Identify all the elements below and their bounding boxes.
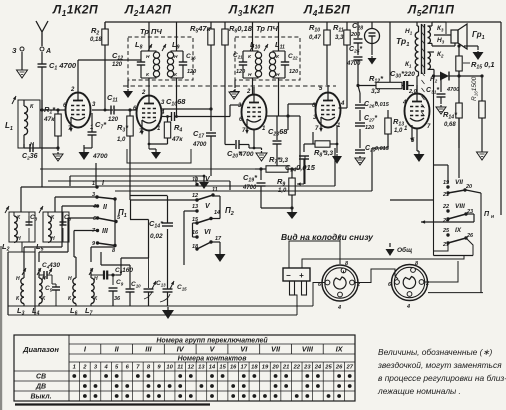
svg-text:4: 4 bbox=[340, 101, 345, 107]
svg-text:18: 18 bbox=[251, 365, 258, 371]
svg-text:19: 19 bbox=[443, 180, 450, 186]
ground IF2 bbox=[230, 80, 240, 98]
terminal Z ground post bbox=[12, 47, 24, 68]
svg-text:120: 120 bbox=[236, 69, 245, 75]
svg-text:21: 21 bbox=[282, 365, 289, 371]
wire screen feed bbox=[388, 22, 391, 87]
Tr1 secondary winding upper bbox=[428, 24, 445, 44]
wire osc routing 2 bbox=[39, 218, 98, 262]
resistor R1 47k bbox=[43, 105, 61, 148]
svg-text:Н: Н bbox=[248, 72, 252, 78]
ground left of R7 bbox=[256, 151, 267, 161]
capacitor C12 120 bbox=[112, 51, 123, 68]
footnote text bbox=[377, 347, 506, 396]
resistor R5 47k bbox=[190, 22, 214, 109]
arrow into R9 bbox=[297, 169, 304, 186]
svg-text:1,0: 1,0 bbox=[117, 137, 126, 143]
svg-text:Номера групп переключателей: Номера групп переключателей bbox=[156, 337, 268, 345]
label tube V5 type bbox=[407, 3, 454, 19]
svg-text:Н: Н bbox=[16, 276, 20, 282]
tuned circuit L9 C16 bbox=[162, 22, 187, 117]
page edge shadow bbox=[0, 246, 2, 410]
resistor R12 3.3 bbox=[358, 74, 402, 95]
wire antenna column down bbox=[41, 110, 43, 187]
capacitor C20 4700 bbox=[225, 117, 254, 160]
svg-text:А: А bbox=[45, 48, 51, 55]
antenna bbox=[36, 21, 48, 46]
wire HT supply bus bbox=[105, 22, 501, 215]
svg-text:10: 10 bbox=[166, 365, 173, 371]
wire mid horizontal 5 bbox=[115, 190, 372, 192]
coil L3 bbox=[16, 268, 26, 317]
svg-text:25: 25 bbox=[442, 228, 450, 234]
svg-text:4: 4 bbox=[406, 304, 410, 310]
svg-text:17: 17 bbox=[241, 365, 248, 371]
svg-text:Л21А2П: Л21А2П bbox=[124, 3, 171, 19]
svg-text:23: 23 bbox=[303, 365, 311, 371]
svg-text:3,3: 3,3 bbox=[371, 88, 380, 95]
tuned circuit L8 C12 bbox=[135, 22, 160, 96]
tube V5 2P1P bbox=[402, 85, 431, 144]
ground IF1 bbox=[123, 80, 133, 98]
svg-text:14: 14 bbox=[214, 210, 220, 216]
capacitor C30 220 bbox=[390, 69, 417, 95]
ground under C31 bbox=[436, 105, 446, 114]
svg-text:22: 22 bbox=[442, 204, 449, 210]
Tr1 secondary winding lower bbox=[428, 51, 445, 83]
svg-text:VI: VI bbox=[240, 345, 248, 354]
wire R13 bottom bbox=[362, 148, 388, 191]
svg-text:Л31К2П: Л31К2П bbox=[228, 3, 274, 19]
switch section III bbox=[92, 228, 117, 254]
table switch contacts bbox=[14, 335, 355, 405]
svg-text:Н: Н bbox=[146, 54, 150, 60]
resistor R16 1500 bbox=[471, 76, 485, 148]
resistor R2 0.18 bbox=[90, 22, 108, 110]
coil L7 bbox=[85, 268, 98, 317]
svg-text:−: − bbox=[286, 271, 291, 280]
svg-text:Тр ПЧ: Тр ПЧ bbox=[140, 27, 162, 36]
svg-text:27: 27 bbox=[345, 365, 353, 371]
svg-text:R161500: R161500 bbox=[471, 76, 479, 101]
capacitor C9 36 bbox=[109, 273, 124, 306]
svg-text:4: 4 bbox=[92, 204, 96, 210]
wire grid junction bbox=[56, 108, 65, 111]
svg-text:+: + bbox=[299, 271, 304, 280]
wire osc routing 1 bbox=[24, 206, 98, 272]
svg-text:19: 19 bbox=[262, 365, 269, 371]
resistor R15 0.1 bbox=[456, 44, 495, 76]
switch section IV bbox=[192, 176, 218, 202]
svg-text:15: 15 bbox=[219, 365, 226, 371]
wire osc routing 5 bbox=[101, 252, 130, 288]
ground under V2 bbox=[148, 131, 161, 160]
speaker Gr1 bbox=[451, 24, 485, 49]
label P2 bbox=[225, 206, 234, 217]
capacitor C25 4700 bbox=[346, 46, 363, 93]
capacitor C26 0.015 bbox=[355, 101, 390, 110]
label tube V1 type bbox=[52, 3, 98, 19]
capacitor C14 0.02 bbox=[149, 196, 173, 288]
switch section VIII bbox=[442, 203, 473, 224]
svg-text:Н: Н bbox=[174, 54, 178, 60]
ground under VI bbox=[211, 242, 226, 262]
svg-text:С4430: С4430 bbox=[42, 262, 60, 269]
resistor R8 3.3 bbox=[313, 125, 338, 159]
capacitor C5 bbox=[45, 275, 60, 306]
svg-text:47к: 47к bbox=[171, 136, 183, 143]
svg-text:1: 1 bbox=[92, 181, 95, 187]
wire common return bbox=[302, 256, 464, 269]
coil L6 bbox=[68, 272, 78, 317]
svg-text:25: 25 bbox=[324, 365, 332, 371]
ground under R1 C2 bbox=[53, 146, 63, 161]
wire mid to switch IV bbox=[196, 156, 305, 184]
svg-text:VIII: VIII bbox=[455, 203, 465, 210]
switch section IX bbox=[442, 227, 474, 248]
terminal A bbox=[40, 47, 51, 55]
wire C14 connections bbox=[130, 196, 196, 266]
capacitor C1 4700 bbox=[38, 52, 77, 100]
svg-text:Диапазон: Диапазон bbox=[22, 345, 59, 354]
svg-text:Номера контактов: Номера контактов bbox=[178, 356, 248, 363]
switch section II bbox=[92, 204, 118, 223]
svg-text:4: 4 bbox=[402, 100, 407, 106]
svg-text:СВ: СВ bbox=[36, 374, 46, 381]
svg-text:1: 1 bbox=[73, 365, 76, 371]
svg-text:17: 17 bbox=[215, 236, 222, 242]
svg-text:Н: Н bbox=[17, 236, 21, 242]
svg-text:10: 10 bbox=[192, 177, 198, 183]
svg-text:11: 11 bbox=[212, 187, 218, 193]
resistor R6 0.18 bbox=[222, 22, 253, 117]
ground under V4 bbox=[332, 154, 342, 164]
capacitor C11 120 bbox=[105, 93, 137, 123]
caption bottom view bbox=[281, 232, 374, 242]
svg-text:200: 200 bbox=[350, 32, 360, 38]
cathode arrow V1 bbox=[69, 117, 73, 132]
ground under V3 bbox=[253, 130, 262, 151]
svg-text:13: 13 bbox=[198, 365, 205, 371]
label 5 contact bbox=[117, 215, 121, 221]
ground under C17 bbox=[199, 175, 209, 189]
AGC dashed bus bbox=[123, 85, 336, 87]
resistor R7 3.3 bbox=[255, 155, 300, 172]
svg-text:2: 2 bbox=[246, 89, 251, 95]
wire osc routing 6 bbox=[116, 258, 149, 275]
capacitor C28 200 bbox=[350, 21, 363, 52]
svg-text:Н: Н bbox=[51, 236, 55, 242]
svg-text:IV: IV bbox=[177, 345, 185, 354]
svg-text:2: 2 bbox=[70, 87, 75, 93]
capacitor C23 68 bbox=[267, 116, 289, 169]
wire VII to tube area bbox=[448, 118, 459, 184]
wire mid horizontal 4 bbox=[96, 148, 335, 186]
svg-text:4: 4 bbox=[160, 110, 165, 116]
wire mid column bbox=[359, 93, 361, 158]
svg-text:IX: IX bbox=[455, 227, 462, 234]
cathode arrow V5 bbox=[410, 125, 414, 142]
resistor R11 3.3 bbox=[333, 22, 350, 108]
ground for Z bbox=[17, 68, 28, 78]
svg-text:26: 26 bbox=[466, 233, 474, 239]
label tube V2 type bbox=[124, 3, 171, 19]
coil L1 bbox=[5, 96, 40, 148]
cathode arrow V3 bbox=[245, 119, 249, 134]
coil L5 with C6 bbox=[36, 206, 72, 253]
svg-text:47к: 47к bbox=[43, 116, 55, 123]
wire osc bus bbox=[8, 242, 35, 315]
svg-text:26: 26 bbox=[335, 365, 343, 371]
cathode arrow V4 bbox=[319, 117, 323, 132]
switch section VII bbox=[442, 179, 472, 198]
variable capacitor C15 bbox=[160, 281, 187, 306]
resistor R4 47k bbox=[149, 115, 183, 144]
tube V4 1B2P bbox=[312, 85, 345, 132]
connector socket 1 bbox=[318, 261, 360, 311]
svg-text:120: 120 bbox=[365, 125, 374, 131]
ground under C7 bbox=[79, 145, 108, 160]
wire osc routing 4 bbox=[91, 199, 115, 262]
resistor R14 0.68 bbox=[443, 71, 462, 148]
wire speaker bbox=[432, 22, 455, 46]
svg-text:Выкл.: Выкл. bbox=[30, 394, 51, 401]
capacitor C17 4700 bbox=[192, 109, 216, 176]
svg-text:Н: Н bbox=[276, 72, 280, 78]
resistor R10 0.47 bbox=[309, 22, 330, 85]
wire bus mid1 bbox=[24, 100, 42, 110]
svg-text:Н: Н bbox=[68, 276, 72, 282]
variable capacitor C13 bbox=[144, 258, 167, 306]
cathode arrow V2 bbox=[140, 120, 144, 135]
wire AVC long 1 bbox=[48, 96, 255, 169]
wire diode junction to R16 bbox=[459, 74, 484, 101]
capacitor C19 4700 bbox=[242, 167, 266, 208]
svg-text:220: 220 bbox=[403, 71, 415, 78]
capacitor C2 36 bbox=[22, 144, 58, 162]
svg-text:20: 20 bbox=[465, 184, 472, 190]
svg-text:4700: 4700 bbox=[346, 61, 361, 67]
wire sockets link bbox=[344, 269, 399, 283]
svg-text:120: 120 bbox=[187, 69, 196, 75]
capacitor C29 0.015 bbox=[355, 145, 390, 154]
capacitor C22 120 label bbox=[288, 53, 298, 75]
svg-text:4700: 4700 bbox=[192, 142, 207, 148]
ground of tuning gang bbox=[162, 307, 174, 319]
label P1 bbox=[118, 208, 127, 219]
svg-text:4700: 4700 bbox=[238, 151, 254, 158]
svg-text:4700: 4700 bbox=[446, 87, 459, 93]
svg-text:0,18: 0,18 bbox=[90, 37, 102, 43]
ground on AGC line bbox=[229, 90, 239, 99]
wires right column bbox=[390, 74, 481, 292]
detector diode bbox=[434, 72, 461, 81]
output transformer Tr1 core bbox=[396, 24, 425, 116]
svg-text:11: 11 bbox=[177, 365, 183, 371]
svg-text:н: н bbox=[491, 214, 494, 220]
svg-text:12: 12 bbox=[192, 193, 198, 199]
svg-text:0,02: 0,02 bbox=[150, 233, 163, 240]
wire mid horizontal 1 bbox=[40, 168, 255, 170]
wire mid horizontal 3 bbox=[48, 181, 230, 190]
svg-text:ДВ: ДВ bbox=[35, 384, 46, 391]
svg-text:2: 2 bbox=[141, 90, 146, 96]
capacitor C7 4700 bbox=[88, 113, 108, 148]
wire L1 to grid bbox=[40, 100, 58, 112]
svg-text:14: 14 bbox=[209, 365, 216, 371]
svg-text:1,0: 1,0 bbox=[394, 128, 403, 134]
svg-text:VII: VII bbox=[455, 179, 463, 186]
switch section VI bbox=[192, 223, 222, 251]
svg-text:IX: IX bbox=[336, 345, 344, 354]
wire V3 grid bbox=[225, 105, 242, 117]
svg-text:12: 12 bbox=[188, 365, 195, 371]
svg-text:36: 36 bbox=[114, 296, 121, 302]
ground under speaker bbox=[464, 46, 484, 60]
svg-text:4700: 4700 bbox=[92, 153, 108, 160]
ground of indicator bbox=[368, 44, 377, 65]
label tube V3 type bbox=[228, 3, 274, 19]
resistor R9 potentiometer bbox=[277, 167, 295, 208]
wire R3 column down bbox=[130, 149, 199, 220]
coil L2 with C3 bbox=[2, 206, 38, 253]
capacitor C10 68 bbox=[162, 97, 226, 121]
svg-text:22: 22 bbox=[293, 365, 301, 371]
svg-text:VII: VII bbox=[271, 345, 281, 354]
wire plug to socket1 bbox=[289, 234, 340, 268]
ground under V5 bbox=[414, 129, 425, 163]
resistor R13 1.0 bbox=[385, 110, 404, 148]
capacitor C16 120 label bbox=[186, 53, 196, 75]
coil L4 bbox=[32, 268, 46, 317]
wire socket2 to right riser bbox=[428, 292, 483, 294]
oscillator bottom bus bbox=[8, 283, 328, 316]
tuning indicator lamp bbox=[365, 22, 380, 44]
wire socket2 pin2 bbox=[424, 261, 458, 282]
tuned circuit L11 C22 bbox=[264, 22, 289, 116]
capacitor C4 430 bbox=[39, 262, 60, 279]
svg-text:З: З bbox=[12, 48, 17, 55]
tube V3 1K2P bbox=[238, 87, 267, 134]
svg-text:13: 13 bbox=[192, 204, 198, 210]
capacitor C31 4700 bbox=[426, 76, 459, 104]
ground Obshch bbox=[386, 243, 413, 256]
ground under R9 bbox=[261, 206, 298, 219]
switch section I bbox=[21, 180, 117, 201]
svg-text:Л11К2П: Л11К2П bbox=[52, 3, 98, 19]
tube V1 1K2P bbox=[63, 85, 96, 132]
wire V1 plate to IF1 bbox=[92, 109, 113, 112]
Tr1 primary winding bbox=[405, 22, 419, 94]
capacitor C27 120 bbox=[355, 115, 377, 131]
svg-text:120: 120 bbox=[112, 62, 123, 68]
ground under C29 bbox=[355, 156, 365, 165]
wire to L2 bbox=[21, 187, 99, 212]
wire osc routing 3 bbox=[74, 231, 98, 273]
svg-text:16: 16 bbox=[230, 365, 237, 371]
wire V4 grid left bbox=[286, 104, 315, 169]
svg-text:0,68: 0,68 bbox=[444, 122, 456, 128]
svg-text:VI: VI bbox=[204, 229, 212, 236]
capacitor C24 0.015 bbox=[277, 116, 316, 174]
tube V2 1A2P bbox=[133, 90, 165, 135]
svg-text:3,3: 3,3 bbox=[324, 150, 333, 157]
capacitor C21 120 label bbox=[233, 52, 245, 75]
wire V1 anode bbox=[78, 60, 141, 85]
connector socket 2 bbox=[388, 261, 429, 310]
capacitor C8 160 bbox=[91, 267, 133, 280]
svg-text:0,015: 0,015 bbox=[375, 102, 390, 108]
wire mid horizontal 2 bbox=[70, 176, 204, 186]
screen box under V2 bbox=[127, 149, 191, 163]
capacitor C10 trimmer bbox=[126, 281, 142, 306]
svg-text:120: 120 bbox=[289, 69, 298, 75]
svg-text:III: III bbox=[145, 345, 152, 354]
power plug bbox=[283, 268, 310, 295]
svg-text:0,47: 0,47 bbox=[309, 35, 321, 41]
svg-text:Тр ПЧ: Тр ПЧ bbox=[256, 24, 278, 33]
tuned circuit L10 C21 bbox=[239, 22, 262, 94]
svg-text:3,3: 3,3 bbox=[335, 35, 344, 41]
wire anode V2 row bbox=[162, 107, 213, 110]
label Pn bbox=[484, 211, 494, 220]
svg-text:VIII: VIII bbox=[302, 345, 314, 354]
svg-text:С8160: С8160 bbox=[115, 267, 133, 274]
label tube V4 type bbox=[303, 3, 350, 19]
svg-text:24: 24 bbox=[314, 365, 322, 371]
ground under R16 bbox=[477, 148, 488, 160]
svg-text:4: 4 bbox=[337, 305, 341, 311]
switch section V bbox=[192, 196, 220, 225]
resistor R3 1.0 bbox=[117, 108, 133, 149]
IF transformer TrPCH 2 box bbox=[235, 24, 300, 80]
svg-text:Л41Б2П: Л41Б2П bbox=[303, 3, 350, 19]
svg-text:Общ: Общ bbox=[397, 246, 412, 254]
svg-text:20: 20 bbox=[271, 365, 279, 371]
svg-text:Н: Н bbox=[94, 276, 98, 282]
svg-text:Л52П1П: Л52П1П bbox=[407, 3, 454, 19]
IF transformer TrPCH 1 box bbox=[128, 27, 193, 80]
